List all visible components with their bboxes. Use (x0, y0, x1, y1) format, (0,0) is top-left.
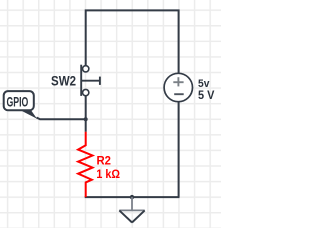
svg-text:GPIO: GPIO (7, 94, 29, 109)
svg-text:1 kΩ: 1 kΩ (96, 167, 120, 181)
svg-text:R2: R2 (97, 154, 112, 168)
svg-text:SW2: SW2 (51, 74, 76, 89)
svg-text:5 V: 5 V (198, 89, 215, 102)
